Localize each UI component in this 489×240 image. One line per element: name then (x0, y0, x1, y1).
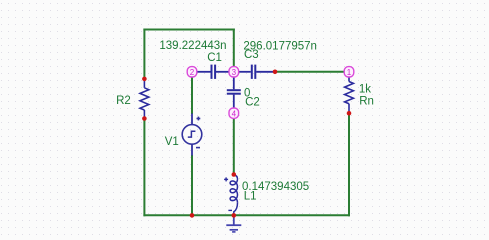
wire top horizontal (143, 29, 234, 31)
ground (226, 215, 241, 232)
junction dot V1 bottom (190, 213, 195, 218)
wire node4 to L1 (233, 117, 235, 175)
wire bottom horizontal (143, 214, 350, 216)
junction dot L1 top (232, 172, 237, 177)
junction dot R2 bottom (142, 116, 147, 121)
resistor R2 (140, 79, 149, 119)
wire left vertical upper (143, 29, 145, 80)
svg-text:C1: C1 (207, 52, 222, 64)
inductor L1 (224, 175, 237, 216)
junction dot Rn bottom (347, 111, 352, 116)
wire V1 to bottom (191, 155, 193, 215)
wire node2 to V1 (191, 76, 193, 115)
junction dot C3 right (273, 70, 278, 75)
capacitor C2 (227, 76, 241, 108)
node 4 (229, 108, 239, 118)
svg-text:4: 4 (232, 109, 237, 118)
svg-text:Rn: Rn (359, 96, 374, 108)
svg-text:R2: R2 (116, 95, 131, 107)
svg-text:1: 1 (347, 68, 352, 77)
svg-text:L1: L1 (244, 191, 257, 203)
voltage source V1 (182, 114, 202, 156)
wire C3 junction to node1 (275, 71, 346, 73)
svg-text:139.222443n: 139.222443n (159, 40, 226, 52)
svg-text:2: 2 (190, 68, 195, 77)
junction dot R2 top (142, 77, 147, 82)
svg-text:3: 3 (232, 68, 237, 77)
capacitor C3 (238, 65, 275, 79)
wire node3 top vertical (233, 29, 235, 69)
wire right vertical (348, 113, 350, 216)
wire left vertical lower (143, 119, 145, 217)
svg-text:C3: C3 (244, 49, 259, 61)
capacitor C1 (197, 65, 230, 79)
junction dot L1 bottom (232, 213, 237, 218)
resistor Rn (345, 77, 354, 114)
node 2 (187, 67, 197, 77)
node 1 (344, 67, 354, 77)
svg-text:1k: 1k (359, 83, 371, 95)
svg-text:C2: C2 (245, 97, 260, 109)
node 3 (229, 67, 239, 77)
svg-text:V1: V1 (165, 136, 179, 148)
